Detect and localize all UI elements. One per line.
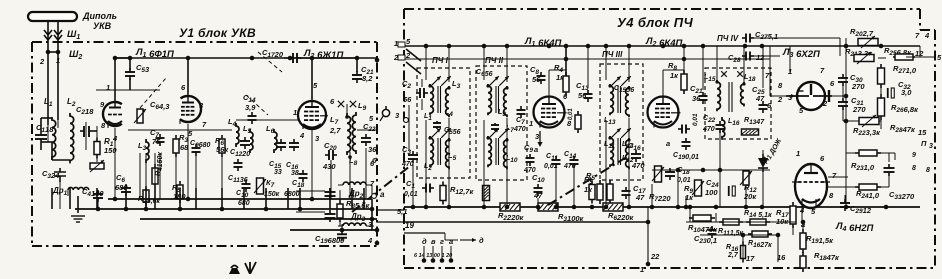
wire (75, 208, 372, 210)
svg-text:0,01: 0,01 (677, 177, 691, 184)
label L<tspan dy='2' style='font-size:6.5px'>9</tspan> (498, 109, 506, 118)
label C<tspan dy='2' style='font-size:6.5px'>7</tspan> (150, 128, 159, 139)
label 1 (394, 39, 398, 48)
label ПЧ IV (717, 34, 739, 43)
wire (548, 70, 550, 96)
label 2,7 (727, 252, 739, 259)
wire (605, 158, 607, 172)
label 1к (584, 185, 593, 194)
label R<tspan dy='2' style='font-size:6.5px'>5</tspan> (172, 183, 181, 194)
wire (802, 249, 804, 256)
wire (677, 168, 679, 207)
wire (715, 213, 717, 222)
wire (425, 158, 427, 172)
label 8 (912, 165, 916, 172)
junction (56, 50, 61, 55)
label 5 (799, 106, 804, 115)
wire (69, 188, 71, 209)
svg-text:2,7: 2,7 (727, 252, 739, 259)
wire (115, 57, 130, 59)
junction (536, 205, 541, 210)
label R<tspan dy='2' style='font-size:6.5px'>9</tspan> (684, 184, 693, 195)
label Ш<tspan dy='2' style='font-size:7px'>2</tspan> (69, 49, 82, 61)
label 6 (370, 159, 375, 168)
wire (108, 198, 372, 200)
label ПЧ III (602, 50, 623, 59)
capacitor C3 (54, 168, 66, 182)
label 12 (915, 49, 924, 58)
resistor R13c (742, 129, 759, 135)
wire (51, 188, 53, 209)
capacitor C10c (534, 184, 543, 196)
label C<tspan dy='2' style='font-size:6.5px'>6</tspan>56 (476, 69, 493, 78)
svg-text:8: 8 (912, 165, 916, 172)
wire (421, 99, 423, 110)
label C<tspan dy='2' style='font-size:6.5px'>17</tspan> (633, 184, 646, 195)
label R<tspan dy='2' style='font-size:6.5px'>3</tspan> (179, 133, 188, 144)
label R<tspan dy='2' style='font-size:6.5px'>13</tspan>47 (744, 117, 765, 126)
wire (877, 152, 895, 154)
wire (125, 188, 127, 209)
capacitor C33c (884, 164, 895, 176)
wire (67, 190, 69, 196)
label 3 (315, 134, 320, 143)
svg-text:г: г (440, 237, 444, 246)
label C<tspan dy='2' style='font-size:6.5px'>27</tspan>5,1 (755, 30, 778, 41)
wire (179, 188, 181, 209)
ground gnd1 (71, 216, 85, 222)
junction (701, 168, 706, 173)
resistor R1c (440, 182, 446, 205)
wire (412, 163, 414, 207)
label L<tspan dy='2' style='font-size:6.5px'>10</tspan> (506, 155, 518, 164)
core arrow (499, 76, 509, 86)
capacitor C28 (742, 52, 754, 61)
label C<tspan dy='2' style='font-size:6.5px'>18</tspan> (677, 165, 690, 176)
wire (651, 184, 653, 207)
label L<tspan dy='2' style='font-size:6.5px'>4</tspan> (445, 109, 453, 118)
label R<tspan dy='2' style='font-size:6.5px'>16</tspan>27к (748, 240, 772, 249)
label 7 (820, 66, 825, 75)
label R<tspan dy='2' style='font-size:6.5px'>6</tspan> (215, 136, 224, 147)
label 470 (513, 126, 526, 133)
label C<tspan dy='2' style='font-size:6.5px'>2</tspan> (402, 79, 411, 90)
wire (175, 153, 177, 199)
junction (375, 58, 380, 63)
label 5,1 (397, 207, 407, 216)
capacitor C7 (517, 106, 526, 118)
svg-text:6 14 13 00 1 20: 6 14 13 00 1 20 (414, 253, 452, 259)
label 5 (369, 114, 374, 123)
junction (447, 205, 452, 210)
wire (129, 78, 131, 90)
wire (792, 224, 794, 235)
resistor C12box (575, 111, 581, 133)
svg-text:УКВ: УКВ (93, 21, 112, 31)
label C<tspan dy='2' style='font-size:6.5px'>10</tspan> (532, 173, 545, 184)
coil dots (447, 138, 450, 141)
wire (265, 188, 267, 209)
wire (351, 188, 353, 209)
wire (243, 188, 245, 209)
label 8 (926, 167, 930, 174)
core arrow (441, 128, 451, 138)
wire (573, 168, 575, 207)
wire (888, 176, 890, 187)
capacitor C31c (838, 98, 848, 110)
capacitor C8c (537, 72, 546, 84)
svg-text:ПЧ I: ПЧ I (432, 56, 449, 65)
wire (762, 46, 764, 88)
label C<tspan dy='2' style='font-size:6.5px'>19</tspan>6800 (315, 234, 345, 245)
label 4 (924, 31, 930, 40)
wire (762, 170, 764, 207)
svg-text:270: 270 (851, 82, 865, 91)
wire (754, 55, 780, 57)
wire (346, 104, 348, 113)
wire (754, 37, 840, 39)
capacitor C3 (408, 151, 418, 163)
svg-text:9: 9 (912, 152, 916, 159)
label L<tspan dy='2' style='font-size:6.5px'>3</tspan> (452, 79, 461, 90)
wire (52, 159, 70, 161)
wire (341, 224, 343, 230)
tube L3 6X2P (786, 82, 832, 110)
resistor R3 (173, 135, 179, 157)
inductor L2/L5 b (446, 138, 449, 169)
label C<tspan dy='2' style='font-size:6.5px'>33</tspan>270 (889, 190, 915, 201)
label C<tspan dy='2' style='font-size:6.5px'>14</tspan> (243, 93, 256, 104)
capacitor C22c (716, 121, 725, 133)
wire (329, 188, 331, 209)
wire (114, 58, 116, 100)
resistor C8 trimmer (134, 109, 146, 123)
label L<tspan dy='2' style='font-size:6.5px'>6</tspan> (266, 124, 275, 135)
junction (96, 207, 101, 212)
inductor L9 (352, 112, 356, 154)
core arrow (621, 76, 631, 86)
resistor R26c (878, 94, 885, 120)
wire (845, 170, 847, 207)
junction (776, 233, 781, 238)
junction (482, 205, 487, 210)
inductor L17c (741, 82, 744, 106)
junction (676, 205, 681, 210)
inductor L3 (146, 139, 149, 163)
label C<tspan dy='2' style='font-size:6.5px'>6</tspan> (116, 173, 125, 184)
inductor L6/L9 b (504, 86, 507, 117)
inductor L12/L14 b (626, 138, 629, 169)
wire (96, 188, 98, 209)
label а (801, 220, 805, 229)
wire (700, 234, 778, 236)
resistor R5c (597, 180, 603, 204)
svg-text:4: 4 (924, 31, 930, 40)
label R<tspan dy='2' style='font-size:6.5px'>11</tspan>1,5к (718, 228, 744, 237)
label 2 (822, 99, 828, 108)
label C<tspan dy='2' style='font-size:6.5px'>25</tspan> (752, 85, 765, 96)
svg-text:1: 1 (529, 119, 533, 128)
coil dots (505, 86, 508, 89)
capacitor C13b (325, 188, 336, 200)
label 7 (765, 71, 770, 80)
label 36 (368, 145, 377, 154)
resistor R5e (589, 181, 595, 204)
wire (689, 207, 691, 222)
junction (884, 205, 889, 210)
wire (906, 56, 935, 58)
label L<tspan dy='2' style='font-size:6.5px'>13</tspan> (604, 117, 616, 126)
wire (311, 129, 313, 199)
wire (448, 160, 450, 172)
wire (506, 118, 508, 207)
capacitor C30c (838, 74, 848, 86)
diode D2 (758, 154, 768, 172)
junction (676, 168, 681, 173)
wire (894, 153, 896, 160)
label L<tspan dy='2' style='font-size:6.5px'>2</tspan> (424, 163, 432, 172)
svg-text:а: а (534, 145, 538, 154)
wire (357, 129, 377, 131)
label R<tspan dy='2' style='font-size:6.5px'>17</tspan> (776, 208, 789, 219)
svg-text:д: д (479, 236, 484, 245)
label 47 (635, 193, 645, 202)
junction (46, 50, 51, 55)
resistor R16b (741, 242, 746, 263)
label C<tspan dy='2' style='font-size:6.5px'>1</tspan> (406, 179, 415, 190)
label 7 (832, 171, 837, 180)
label C<tspan dy='2' style='font-size:6.5px'>21</tspan> (361, 65, 374, 76)
wire (140, 218, 377, 220)
label УКВ (93, 21, 112, 31)
wire (565, 46, 567, 76)
label 15 (918, 128, 927, 137)
arrow to d (460, 236, 484, 245)
label 9 (100, 100, 105, 109)
label 6 (563, 92, 568, 101)
wire (652, 169, 770, 171)
inductor L2 (70, 113, 74, 163)
wire (878, 57, 886, 59)
junction (572, 205, 577, 210)
label 1к (685, 193, 694, 202)
label 19 (405, 221, 414, 230)
label 3 (929, 143, 933, 150)
wire (96, 155, 98, 162)
svg-text:Диполь: Диполь (82, 11, 117, 21)
resistor R18c (800, 252, 806, 272)
capacitor C21c (699, 92, 708, 104)
label 2 (777, 95, 783, 104)
label R<tspan dy='2' style='font-size:6.5px'>7</tspan>220 (649, 192, 671, 203)
label Др<tspan dy='2' style='font-size:6.5px'>2</tspan> (348, 189, 364, 200)
wire (221, 188, 223, 209)
label 56к (216, 145, 229, 154)
inductor L11/L13 a (610, 84, 613, 115)
svg-text:47: 47 (635, 193, 645, 202)
label Др<tspan dy='2' style='font-size:6.5px'>1</tspan> (52, 186, 68, 197)
wire (363, 188, 365, 209)
wire (685, 196, 687, 207)
svg-text:1: 1 (796, 149, 800, 158)
label 150 (104, 146, 117, 155)
resistor R11c (719, 219, 743, 225)
svg-text:17: 17 (746, 254, 755, 263)
capacitor C16c (631, 150, 641, 162)
svg-text:У1 блок УКВ: У1 блок УКВ (179, 26, 256, 40)
resistor R2b (483, 186, 490, 201)
wire (802, 222, 804, 233)
wire (114, 128, 116, 199)
core (617, 138, 619, 165)
resistor R7c (652, 166, 664, 182)
label Диполь (82, 11, 117, 21)
inductor L1/L3 a (430, 84, 433, 115)
svg-text:д: д (422, 237, 427, 246)
junction (879, 44, 884, 49)
label C<tspan dy='2' style='font-size:6.5px'>17</tspan>20 (262, 48, 284, 59)
label R<tspan dy='2' style='font-size:6.5px'>2</tspan>220к (498, 211, 525, 222)
capacitor C22 (361, 134, 371, 146)
junction (144, 207, 149, 212)
svg-text:2: 2 (39, 57, 45, 66)
label 6 (830, 79, 835, 88)
capacitor C32c (888, 88, 895, 98)
wire (448, 118, 450, 207)
label 470 (401, 161, 414, 168)
label 100 (705, 188, 718, 197)
wire (371, 185, 373, 196)
wire (296, 190, 325, 192)
resistor K7 (254, 178, 266, 194)
label 2 (405, 51, 411, 60)
label L<tspan dy='2' style='font-size:6.5px'>5</tspan> (448, 151, 457, 162)
label R<tspan dy='2' style='font-size:6.5px'>3</tspan>100к (558, 212, 585, 223)
wire (445, 239, 458, 241)
junction (220, 207, 225, 212)
svg-text:1: 1 (293, 108, 297, 117)
label б (372, 156, 377, 165)
capacitor C23c (708, 226, 717, 238)
wire (762, 171, 764, 178)
resistor R27c (878, 64, 885, 88)
label 0,01 (404, 191, 418, 198)
label R<tspan dy='2' style='font-size:6.5px'>6</tspan>220к (608, 211, 635, 222)
label 8,2 (362, 74, 373, 83)
wire (349, 152, 351, 160)
capacitor C27 (742, 34, 754, 43)
label C<tspan dy='2' style='font-size:6.5px'>18</tspan> (292, 180, 305, 189)
svg-text:а: а (380, 190, 385, 199)
label 6 (820, 154, 825, 163)
wire (628, 118, 630, 207)
core mark (350, 101, 356, 107)
capacitor C11 (234, 159, 243, 171)
svg-text:2,7: 2,7 (329, 126, 341, 135)
svg-text:75: 75 (152, 137, 161, 146)
label 0,01 (544, 163, 558, 170)
capacitor C5 (125, 68, 135, 80)
wire (844, 195, 846, 201)
connector symbol (229, 262, 256, 274)
resistor R21 (854, 52, 874, 64)
IF transformer PCh IV box (705, 68, 771, 139)
label 1к (556, 73, 565, 82)
wire (483, 158, 485, 172)
label 6 (181, 83, 186, 92)
label 9 (912, 152, 916, 159)
label R<tspan dy='2' style='font-size:6.5px'>5</tspan> (584, 175, 593, 186)
resistor R20 (858, 36, 878, 48)
label 1 (56, 56, 60, 65)
resistor R6 (603, 203, 623, 211)
label C<tspan dy='2' style='font-size:6.5px'>16</tspan> (628, 141, 641, 152)
label 12 (756, 53, 765, 62)
junction (684, 205, 689, 210)
label П (921, 139, 927, 148)
wire (506, 46, 508, 82)
wire (312, 57, 355, 59)
terminal a-term (372, 194, 377, 199)
wire (828, 176, 848, 178)
label Л<tspan dy='2' style='font-size:7px'>2</tspan> 6Ж1П (303, 48, 343, 61)
inductor L1/L3 b (446, 86, 449, 117)
resistor R17c (790, 202, 796, 228)
wire (880, 116, 882, 121)
label C<tspan dy='2' style='font-size:6.5px'>5</tspan>56 (444, 127, 461, 136)
core arrow (431, 76, 441, 86)
label C<tspan dy='2' style='font-size:6.5px'>13</tspan> (576, 81, 589, 92)
wire (483, 120, 485, 207)
label 47 (755, 94, 765, 103)
wire (719, 133, 721, 207)
svg-text:38: 38 (291, 170, 299, 177)
label C<tspan dy='2' style='font-size:6.5px'>11</tspan>36 (228, 175, 248, 184)
junction (411, 205, 416, 210)
capacitor C19b (325, 210, 336, 222)
label 1 (106, 83, 110, 92)
wire (339, 218, 341, 226)
wire (842, 84, 844, 100)
label 3 (535, 132, 540, 141)
wire (421, 79, 423, 87)
inductor L15c (717, 80, 720, 111)
coil dots (345, 115, 349, 119)
label 430 (322, 162, 336, 171)
svg-text:12: 12 (756, 53, 765, 62)
junction (604, 205, 609, 210)
wire (371, 199, 373, 230)
label 7 (370, 179, 375, 188)
inductor Dr2 (343, 182, 366, 185)
capacitor C1 (35, 118, 47, 150)
svg-text:1к: 1к (584, 185, 593, 194)
svg-text:270: 270 (852, 105, 866, 114)
label R<tspan dy='2' style='font-size:6.5px'>5</tspan> (586, 171, 595, 182)
wire (628, 160, 630, 172)
wire (702, 46, 704, 90)
wire (770, 95, 786, 97)
wire (425, 120, 427, 207)
junction (186, 56, 191, 61)
wire (41, 141, 52, 143)
wire (85, 122, 87, 150)
label C<tspan dy='2' style='font-size:6.5px'>15</tspan>56 (614, 85, 634, 94)
svg-text:ПЧ III: ПЧ III (602, 50, 623, 59)
svg-text:0,01: 0,01 (404, 191, 418, 198)
label C<tspan dy='2' style='font-size:6.5px'>29</tspan>12 (850, 204, 872, 215)
terminal t3 (404, 118, 409, 123)
